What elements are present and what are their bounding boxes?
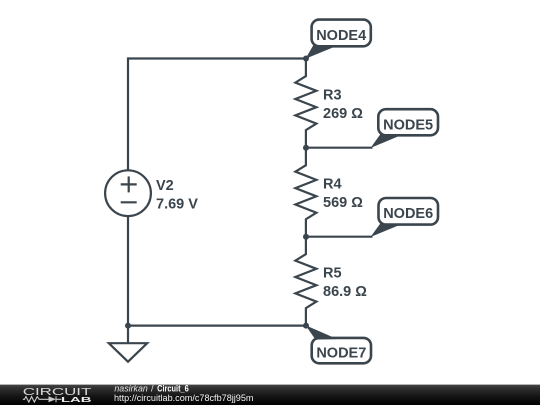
resistor R3 <box>295 59 316 148</box>
svg-text:7.69 V: 7.69 V <box>156 196 198 212</box>
footer bar <box>0 385 540 405</box>
wire top horizontal from V2 to NODE4 <box>128 57 306 59</box>
svg-text:NODE7: NODE7 <box>316 346 366 362</box>
footer title text <box>114 384 188 394</box>
label V2 value <box>156 178 198 212</box>
label R5 <box>323 266 367 300</box>
svg-text:NODE5: NODE5 <box>383 117 433 133</box>
svg-text:R5: R5 <box>323 266 342 282</box>
svg-text:LAB: LAB <box>61 395 92 404</box>
svg-text:NODE4: NODE4 <box>316 28 366 44</box>
resistor R5 <box>295 237 316 326</box>
resistor R4 <box>295 148 316 237</box>
svg-text:Circuit_6: Circuit_6 <box>157 384 189 394</box>
svg-text:nasirkan: nasirkan <box>114 384 147 394</box>
svg-text:86.9 Ω: 86.9 Ω <box>323 284 367 300</box>
node NODE4 junction <box>303 56 309 62</box>
svg-text:NODE6: NODE6 <box>383 206 433 222</box>
wire left vertical lower <box>127 216 129 326</box>
svg-text:R3: R3 <box>323 88 342 104</box>
wire NODE6 tap <box>306 236 373 238</box>
wire left vertical upper <box>127 57 129 170</box>
svg-text:V2: V2 <box>156 178 174 194</box>
node flag NODE4 <box>306 20 371 59</box>
wire NODE5 tap <box>306 147 373 149</box>
node NODE5 junction <box>303 145 309 151</box>
node NODE6 junction <box>303 234 309 240</box>
node dot ground tap <box>125 323 131 329</box>
node flag NODE6 <box>371 198 439 237</box>
wire bottom horizontal <box>128 325 306 327</box>
logo schematic doodle (resistor + diode) <box>23 396 62 402</box>
svg-text:R4: R4 <box>323 177 342 193</box>
label R4 <box>323 177 363 211</box>
label R3 <box>323 88 363 122</box>
node flag NODE7 <box>306 325 372 363</box>
logo diode triangle <box>49 396 57 402</box>
svg-text:http://circuitlab.com/c78cfb78: http://circuitlab.com/c78cfb78jj95m <box>114 393 254 403</box>
node NODE7 junction <box>303 323 309 329</box>
svg-text:569 Ω: 569 Ω <box>323 195 363 211</box>
svg-text:269 Ω: 269 Ω <box>323 106 363 122</box>
node flag NODE5 <box>371 109 439 148</box>
voltage source V2 <box>105 170 151 216</box>
ground <box>109 326 147 362</box>
